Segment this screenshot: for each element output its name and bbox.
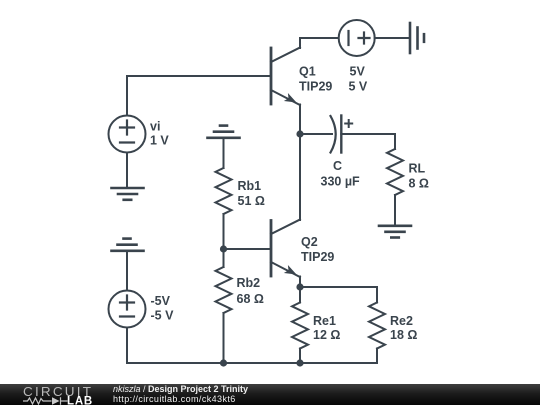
wire node E to Re1 [299, 287, 301, 303]
svg-text:18 Ω: 18 Ω [390, 328, 417, 342]
resistor RL [387, 149, 403, 195]
node B junction [220, 245, 227, 252]
transistor Q1 [271, 48, 300, 106]
transistor Q2 [271, 220, 300, 278]
node Re1-rail junction [296, 359, 303, 366]
label vi 1 V [150, 120, 169, 148]
wire Q1 collector to 5V source [300, 38, 339, 48]
footer url line [113, 394, 236, 404]
wire -5V source to bottom rail [126, 328, 128, 364]
svg-text:Rb2: Rb2 [237, 276, 261, 290]
svg-text:LAB: LAB [67, 396, 93, 405]
wire node E to Re2 [300, 287, 377, 303]
svg-text:-5 V: -5 V [151, 309, 175, 323]
node E junction [296, 283, 303, 290]
svg-text:51 Ω: 51 Ω [238, 194, 265, 208]
label -5V -5 V [151, 294, 175, 323]
label 5V 5 V [349, 65, 368, 94]
svg-text:Re1: Re1 [313, 314, 336, 328]
voltage source 5V [339, 20, 375, 56]
wire Re1 to bottom rail [299, 349, 301, 364]
wire Rb2 to bottom rail [223, 313, 225, 363]
svg-text:C: C [333, 159, 342, 173]
resistor Re2 [369, 303, 385, 349]
bottom rail wire [127, 362, 377, 364]
wire vi bottom to ground [126, 153, 128, 188]
label Re1 12 ohm [313, 314, 340, 342]
wire node B to Q2 base [224, 248, 271, 250]
inverted ground above -5V source [112, 239, 144, 251]
wire Q1 emitter to node OUT [299, 105, 301, 135]
svg-text:5V: 5V [350, 65, 366, 79]
ground below vi [112, 188, 144, 200]
label C 330 uF [321, 159, 361, 189]
wire Rb1 to node B [223, 214, 225, 249]
wire vi top to Q1 base [127, 76, 270, 116]
svg-text:8 Ω: 8 Ω [409, 177, 429, 191]
resistor Rb1 [216, 168, 232, 214]
svg-text:12 Ω: 12 Ω [313, 328, 340, 342]
voltage source -5V [109, 291, 146, 328]
svg-text:1 V: 1 V [150, 134, 169, 148]
label RL 8 ohm [409, 162, 429, 191]
wire 5V source to right ground [375, 37, 409, 39]
CircuitLab logo text [23, 385, 93, 399]
svg-text:Q2: Q2 [301, 235, 318, 249]
svg-text:-5V: -5V [151, 294, 171, 308]
wire Re2 to bottom rail [376, 349, 378, 364]
wire Q2 emitter to node E [299, 277, 301, 288]
node OUT junction [296, 130, 303, 137]
label Q2 TIP29 [301, 235, 334, 264]
svg-text:TIP29: TIP29 [301, 250, 334, 264]
wire Q2 collector to node OUT [299, 134, 301, 220]
svg-text:Rb1: Rb1 [238, 179, 262, 193]
svg-text:68 Ω: 68 Ω [237, 292, 264, 306]
capacitor C [331, 116, 353, 153]
ground below RL [379, 226, 411, 238]
wire capacitor to RL [341, 134, 395, 149]
svg-text:330 µF: 330 µF [321, 175, 361, 189]
ground right-facing at 5V [410, 23, 424, 53]
wire ground to -5V source [126, 252, 128, 291]
svg-text:Q1: Q1 [299, 65, 316, 79]
CircuitLab logo squiggle and LAB [23, 396, 103, 405]
voltage source vi [109, 116, 146, 153]
label Rb1 51 ohm [238, 179, 265, 208]
wire node OUT to capacitor [300, 133, 332, 135]
resistor Rb2 [216, 267, 232, 313]
svg-text:RL: RL [409, 162, 426, 176]
svg-text:TIP29: TIP29 [299, 80, 332, 94]
label Q1 TIP29 [299, 65, 332, 94]
svg-text:Re2: Re2 [390, 314, 413, 328]
label Re2 18 ohm [390, 314, 417, 342]
svg-text:vi: vi [150, 120, 160, 134]
wire ground to Rb1 [223, 139, 225, 169]
node Rb2-rail junction [220, 359, 227, 366]
label Rb2 68 ohm [237, 276, 264, 306]
footer title line [113, 384, 248, 394]
footer bar [0, 384, 540, 405]
resistor Re1 [292, 303, 308, 349]
wire RL to ground [394, 195, 396, 225]
wire node B to Rb2 [223, 249, 225, 267]
svg-text:5 V: 5 V [349, 80, 368, 94]
inverted ground above Rb1 [208, 126, 240, 138]
